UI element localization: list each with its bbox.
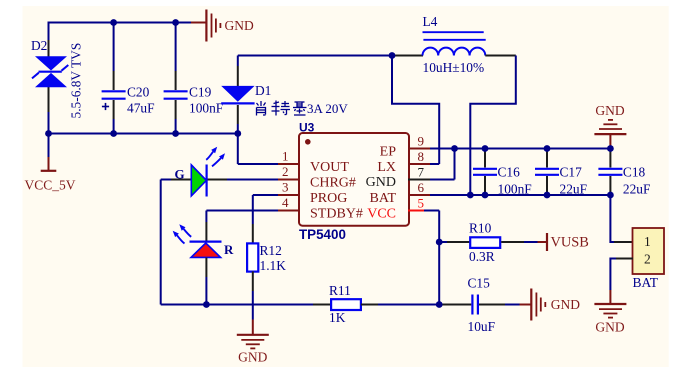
svg-text:R11: R11 xyxy=(329,283,351,298)
wire top-left rail xyxy=(49,22,192,24)
capacitor C17 xyxy=(535,149,587,197)
wire BAT rail pin6 xyxy=(430,194,610,196)
svg-text:U3: U3 xyxy=(299,121,315,135)
pin 6 stub xyxy=(408,194,430,196)
svg-text:3: 3 xyxy=(282,180,289,195)
pin 8 stub xyxy=(408,163,439,165)
pin 4 stub xyxy=(278,210,300,212)
svg-text:EP: EP xyxy=(380,144,397,159)
svg-text:10uH±10%: 10uH±10% xyxy=(423,60,485,75)
node BAT rail C18 xyxy=(607,192,614,199)
svg-text:BAT: BAT xyxy=(370,191,397,206)
wire bottom-left rail xyxy=(49,133,238,135)
wire BAT rail to connector pin 1 xyxy=(610,195,633,242)
wire pin7 link to EP rail xyxy=(430,149,455,180)
pin 9 stub xyxy=(408,148,430,150)
svg-text:GND: GND xyxy=(366,175,396,190)
svg-text:1: 1 xyxy=(644,234,651,249)
svg-text:2: 2 xyxy=(282,164,289,179)
node BAT rail L4 leg xyxy=(467,192,474,199)
svg-text:D1: D1 xyxy=(255,83,271,98)
svg-text:L4: L4 xyxy=(423,14,438,29)
svg-text:GND: GND xyxy=(551,297,580,312)
node C20 top xyxy=(110,19,117,26)
svg-text:8: 8 xyxy=(418,149,425,164)
wire pin3 to R12 xyxy=(253,195,278,244)
svg-text:2: 2 xyxy=(644,252,651,267)
node R10 junction xyxy=(436,239,443,246)
svg-text:47uF: 47uF xyxy=(127,101,155,116)
svg-text:R12: R12 xyxy=(260,243,282,258)
capacitor C18 xyxy=(598,149,650,197)
node EP rail C18 xyxy=(607,145,614,152)
LED G (green) xyxy=(191,147,225,197)
ground GND right of C15 (horizontal earth symbol) xyxy=(520,289,581,321)
capacitor C19 xyxy=(164,23,224,134)
svg-text:BAT: BAT xyxy=(633,275,659,290)
svg-text:100nF: 100nF xyxy=(498,182,532,197)
svg-text:CHRG#: CHRG# xyxy=(310,175,356,190)
pin 7 stub xyxy=(408,179,430,181)
svg-text:C16: C16 xyxy=(498,165,521,180)
wire red LED to bottom rail xyxy=(205,258,207,305)
svg-text:C18: C18 xyxy=(623,165,646,180)
svg-text:GND: GND xyxy=(225,18,254,33)
svg-text:1: 1 xyxy=(282,149,289,164)
wire bottom rail to R11 xyxy=(161,304,331,306)
肖 xyxy=(260,101,262,106)
svg-text:5: 5 xyxy=(418,196,425,211)
resistor R12 xyxy=(247,243,258,271)
svg-text:C19: C19 xyxy=(189,85,212,100)
node C19 top xyxy=(172,19,179,26)
特 xyxy=(274,102,280,104)
wire L4 left leg to LX pin8 xyxy=(392,56,439,165)
node C19 bottom xyxy=(172,130,179,137)
inductor L4 xyxy=(392,32,516,55)
power port VCC_5V xyxy=(25,134,76,193)
svg-text:GND: GND xyxy=(595,320,624,335)
capacitor C16 xyxy=(473,149,532,197)
wire connector pin 2 to GND xyxy=(610,259,633,305)
pin 2 stub xyxy=(278,179,300,181)
op-amp U3 chip body TP5400 xyxy=(299,133,409,226)
wire EP rail pin9 xyxy=(430,148,610,150)
node red LED bottom xyxy=(203,301,210,308)
svg-text:4: 4 xyxy=(282,195,289,210)
svg-text:9: 9 xyxy=(418,134,425,149)
node D1 rail xyxy=(234,130,241,137)
svg-text:GND: GND xyxy=(238,350,267,365)
resistor R11 xyxy=(331,299,361,310)
capacitor C20 xyxy=(102,23,155,134)
connector BAT xyxy=(633,228,665,274)
node VCC_5V rail left xyxy=(45,130,52,137)
node BAT rail C16 xyxy=(482,192,489,199)
pin 3 stub xyxy=(278,194,300,196)
wire L4 right leg to BAT rail xyxy=(470,56,516,196)
wire pin4 to red LED xyxy=(206,211,278,242)
svg-text:22uF: 22uF xyxy=(623,182,651,197)
node BAT rail C17 xyxy=(544,192,551,199)
svg-text:C17: C17 xyxy=(560,165,583,180)
node EP rail pin7 riser xyxy=(451,145,458,152)
wire pin2 to green LED xyxy=(161,179,278,181)
wire R11 to C15 junction xyxy=(361,304,439,306)
svg-text:6: 6 xyxy=(418,180,425,195)
svg-text:C15: C15 xyxy=(468,276,491,291)
svg-text:R10: R10 xyxy=(469,221,492,236)
svg-text:G: G xyxy=(175,167,185,182)
node L4 left xyxy=(389,52,396,59)
diode D1 (schottky) xyxy=(221,56,254,125)
svg-text:D2: D2 xyxy=(31,38,47,53)
value label 肖特基3A 20V (hand-drawn hanzi strokes + text) xyxy=(257,101,307,116)
基 xyxy=(295,101,305,103)
svg-text:7: 7 xyxy=(418,165,425,180)
svg-text:LX: LX xyxy=(377,160,396,175)
node EP rail C17 xyxy=(544,145,551,152)
capacitor C15 xyxy=(441,295,520,315)
svg-text:3A 20V: 3A 20V xyxy=(307,101,348,116)
wire green LED anode riser xyxy=(160,180,162,305)
ground GND top (horizontal earth symbol) xyxy=(191,10,254,42)
diode D2 (TVS) xyxy=(32,56,68,87)
pin 5 stub xyxy=(408,210,424,212)
ground GND above C18 (inverted) xyxy=(594,103,626,149)
svg-text:1K: 1K xyxy=(329,310,346,325)
svg-text:100nF: 100nF xyxy=(189,101,223,116)
svg-text:VCC: VCC xyxy=(367,206,396,221)
svg-text:VUSB: VUSB xyxy=(551,235,589,251)
svg-text:10uF: 10uF xyxy=(468,319,496,334)
wire D2 column xyxy=(48,22,50,134)
wire top net to L4 xyxy=(238,55,392,57)
svg-text:C20: C20 xyxy=(127,85,150,100)
wire D1 bottom to pin1 xyxy=(238,124,278,164)
svg-text:R: R xyxy=(224,242,234,257)
svg-text:GND: GND xyxy=(595,103,624,118)
svg-text:PROG: PROG xyxy=(310,191,347,206)
svg-text:TP5400: TP5400 xyxy=(299,227,346,242)
LED R (red) xyxy=(173,224,222,257)
ground GND bottom-center xyxy=(237,320,269,365)
pin 1 stub xyxy=(278,163,300,165)
node C15 junction xyxy=(436,301,443,308)
resistor R10 xyxy=(439,237,537,248)
wire pin5 to VCC riser xyxy=(424,211,439,305)
node C20 bottom xyxy=(110,130,117,137)
svg-text:VOUT: VOUT xyxy=(310,160,349,175)
ground GND bottom-right xyxy=(594,304,626,335)
svg-text:0.3R: 0.3R xyxy=(469,249,495,264)
power port VUSB xyxy=(538,233,589,251)
svg-text:1.1K: 1.1K xyxy=(260,258,287,273)
node EP rail C16 xyxy=(482,145,489,152)
svg-text:5.5-6.8V TVS: 5.5-6.8V TVS xyxy=(69,43,84,119)
svg-text:VCC_5V: VCC_5V xyxy=(25,178,76,193)
svg-text:22uF: 22uF xyxy=(560,182,588,197)
wire R12 bottom to GND xyxy=(252,271,254,319)
svg-text:STDBY#: STDBY# xyxy=(310,206,363,221)
